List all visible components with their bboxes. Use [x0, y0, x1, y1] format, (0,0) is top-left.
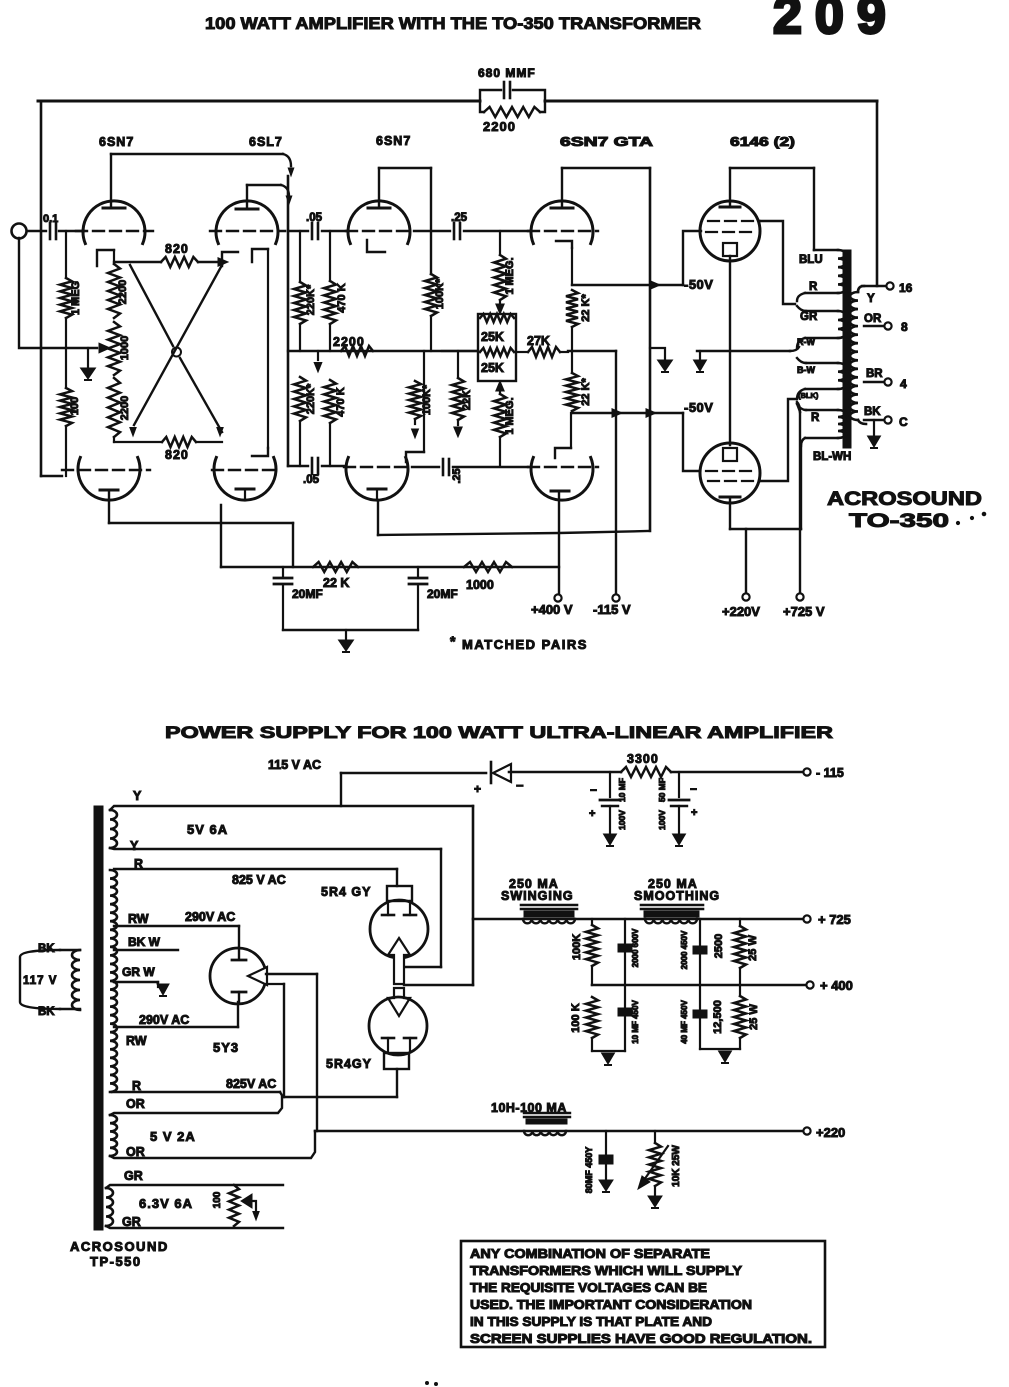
wire lower 820 to V2B	[196, 441, 222, 443]
label GRW	[122, 965, 155, 979]
svg-text:ACROSOUND: ACROSOUND	[827, 489, 982, 510]
secondary tap 8	[864, 320, 908, 334]
label BKW	[128, 935, 161, 949]
wire screen upper	[760, 221, 795, 304]
wire 22K* junction	[568, 327, 616, 351]
svg-text:THE REQUISITE VOLTAGES CAN: THE REQUISITE VOLTAGES CAN BE	[470, 1280, 707, 1295]
svg-text:6SL7: 6SL7	[249, 135, 283, 149]
wire 5Y3 out lower	[266, 984, 284, 1097]
resistor 12500 25W	[712, 985, 760, 1049]
row y534 to bias	[378, 531, 648, 535]
tube V4A grid dashed line	[528, 230, 598, 232]
label 250MA smoothing	[634, 877, 720, 903]
rail y567	[221, 566, 559, 568]
wire V4A cathode down	[571, 248, 573, 285]
svg-text:117 V: 117 V	[23, 975, 57, 987]
svg-text:115 V AC: 115 V AC	[268, 758, 321, 772]
svg-text:+220: +220	[816, 1125, 845, 1140]
svg-text:R: R	[809, 281, 818, 293]
wire 5V6A bottom	[110, 848, 441, 849]
svg-text:5V 6A: 5V 6A	[187, 822, 228, 837]
svg-text:6.3V 6A: 6.3V 6A	[139, 1196, 193, 1211]
svg-text:100K*: 100K*	[434, 278, 446, 309]
tube V1B 6SN7 lower envelope	[78, 457, 140, 500]
svg-text:C: C	[899, 415, 908, 429]
wire 1MEG to row	[65, 318, 67, 348]
svg-text:IN THIS SUPPLY IS THAT PL: IN THIS SUPPLY IS THAT PLATE AND	[470, 1314, 712, 1329]
label BLK smudge	[798, 391, 819, 400]
resistor 220K* upper	[294, 231, 317, 324]
pot 25K lower	[480, 348, 514, 375]
secondary tap 4	[864, 377, 907, 391]
svg-text:10 MF 450V: 10 MF 450V	[631, 1000, 640, 1044]
diode bias	[474, 762, 524, 796]
svg-text:B-W: B-W	[797, 365, 815, 375]
svg-text:100: 100	[69, 397, 81, 415]
wire 725 junction	[797, 402, 800, 412]
svg-text:0.1: 0.1	[43, 213, 58, 225]
svg-text:220K*: 220K*	[305, 284, 317, 315]
choke smoothing core	[641, 905, 703, 917]
tube V4A 6SN7GTA upper envelope	[531, 201, 593, 244]
svg-text:680 MMF: 680 MMF	[478, 66, 536, 80]
wire V3 to .25 cap	[414, 230, 450, 232]
wire input down	[19, 238, 97, 348]
arrow tap on row	[314, 351, 322, 372]
svg-text:20MF: 20MF	[292, 587, 323, 601]
resistor 1MEG upper	[494, 231, 516, 314]
label Y1	[133, 789, 142, 803]
wire V3 cathode vertical	[406, 351, 424, 462]
label 6146 (2)	[730, 135, 795, 149]
svg-text:ANY COMBINATION OF SEPARATE: ANY COMBINATION OF SEPARATE	[470, 1246, 711, 1261]
svg-text:100V: 100V	[657, 810, 667, 830]
svg-text:SCREEN SUPPLIES HAVE GOOD: SCREEN SUPPLIES HAVE GOOD REGULATION.	[470, 1331, 812, 1346]
63V winding bumps	[106, 1188, 113, 1226]
resistor 820 upper	[161, 242, 198, 267]
wire feedback top rail left	[38, 100, 480, 103]
wire 5V2A top	[110, 1097, 282, 1115]
tube V5A 6146 envelope	[700, 201, 760, 261]
cross-coupling wire B	[134, 265, 222, 425]
svg-text:*: *	[450, 633, 456, 649]
label 6SN7 stage1	[99, 135, 134, 149]
resistor 470K upper	[324, 231, 348, 324]
primary section 3	[797, 358, 846, 399]
label BK bottom	[38, 1006, 55, 1018]
wire box left to 22K	[442, 350, 478, 352]
tube V2A grid dashed line	[210, 230, 285, 232]
resistor 100K lower	[570, 997, 598, 1051]
svg-text:5R4 GY: 5R4 GY	[321, 885, 371, 899]
svg-text:BR: BR	[866, 368, 883, 380]
wire V2 cathode down	[267, 249, 269, 448]
tube V2A cathode bracket L	[222, 252, 238, 266]
svg-text:825V AC: 825V AC	[226, 1077, 276, 1091]
label 250MA swinging	[501, 877, 574, 903]
label R1	[134, 857, 143, 871]
row -50V lower	[572, 409, 683, 417]
tube 5Y3 top post	[232, 948, 246, 960]
label 117 V	[23, 975, 57, 987]
tube V5A grids dashed	[706, 221, 760, 232]
wire .25 to V4 grid	[464, 230, 530, 232]
5V2A winding bumps	[110, 1115, 117, 1156]
tube 5R4 lower envelope	[369, 997, 427, 1055]
svg-text:TP-550: TP-550	[90, 1254, 142, 1269]
wire y985 crossing	[404, 984, 473, 986]
resistor 1MEG lower	[494, 381, 516, 466]
arrowhead cross into V2B	[217, 428, 223, 437]
choke 10H core	[524, 1113, 570, 1124]
note text	[470, 1246, 812, 1346]
label -50V upper	[684, 277, 713, 292]
label -50V lower	[684, 400, 713, 415]
tube V1A cathode bracket	[97, 250, 114, 266]
capacitor 20MF right	[409, 567, 458, 630]
label 10H-100MA	[491, 1101, 567, 1115]
svg-text:R-W: R-W	[797, 337, 815, 347]
svg-text:Y: Y	[130, 839, 139, 853]
cross loop at crossing	[172, 348, 181, 357]
label BLU	[799, 254, 823, 266]
arrow 100K* lower gnd	[412, 419, 419, 438]
wire V4B bracket	[555, 413, 571, 458]
svg-text:RW: RW	[128, 912, 149, 926]
wire 220K-470K mid join	[300, 324, 330, 351]
wire 100K* column	[430, 168, 432, 274]
svg-text:+725 V: +725 V	[783, 604, 825, 619]
label 5Y3	[213, 1040, 239, 1055]
wire .05 to V3 grid	[322, 230, 346, 232]
svg-text:100K*: 100K*	[421, 384, 433, 415]
secondary winding	[850, 286, 866, 424]
ground arrow secondary	[868, 420, 881, 448]
wire +220 row	[315, 1130, 803, 1133]
svg-text:-115 V: -115 V	[593, 602, 631, 617]
capacitor .25 upper	[451, 212, 468, 239]
svg-text:SMOOTHING: SMOOTHING	[634, 889, 720, 903]
choke smoothing bumps	[645, 919, 697, 923]
tube V2A cathode bracket R	[252, 249, 268, 262]
wire 115VAC riser	[340, 773, 342, 806]
svg-text:825 V AC: 825 V AC	[232, 873, 286, 887]
svg-text:470 K: 470 K	[335, 387, 347, 416]
svg-text:5Y3: 5Y3	[213, 1040, 239, 1055]
svg-text:1 MEG.: 1 MEG.	[504, 257, 516, 294]
tube V1B grid dashed	[62, 469, 150, 471]
svg-text:GR: GR	[122, 1215, 141, 1229]
wire coupling to .05 cap	[288, 230, 308, 232]
label RW1	[128, 912, 149, 926]
wire stage3 plate rail	[379, 167, 431, 169]
svg-text:290V AC: 290V AC	[185, 910, 235, 924]
tube 5R4 upper plate box	[387, 869, 412, 901]
resistor 100K* lower	[409, 381, 433, 419]
svg-text:16: 16	[899, 281, 913, 295]
svg-text:100 K: 100 K	[570, 1003, 582, 1032]
wire B+ row	[473, 918, 803, 921]
wire V2B cathode down	[220, 505, 222, 567]
svg-text:-50V: -50V	[684, 400, 713, 415]
svg-text:6SN7: 6SN7	[99, 135, 134, 149]
wire 115VAC line	[268, 758, 486, 773]
capacitor 0.1 input	[43, 213, 58, 239]
terminal -115V	[593, 594, 631, 617]
wire 290VAC lower	[114, 1002, 238, 1027]
resistor 3300 bias	[621, 752, 671, 777]
resistor 1000 rail	[464, 562, 512, 592]
wire GRW arrow	[114, 982, 169, 996]
resistor 22K rail	[313, 562, 358, 590]
svg-text:40 MF 450V: 40 MF 450V	[680, 1000, 689, 1044]
svg-text:.25: .25	[451, 468, 463, 483]
wire V3B cathode to row534	[377, 500, 379, 535]
terminal +725 ps	[803, 912, 851, 927]
wire rail into transformer primary	[813, 168, 815, 250]
input jack	[12, 224, 27, 239]
page number 209	[773, 0, 899, 45]
wire stage4 plate rail	[562, 167, 650, 169]
resistor 2200 row	[333, 335, 373, 356]
power supply title	[165, 723, 833, 742]
svg-text:10K 25W: 10K 25W	[671, 1145, 682, 1187]
primary 117V bracket	[20, 950, 80, 1009]
svg-text:+: +	[691, 807, 697, 819]
row y351 stage2-3	[288, 350, 478, 352]
wire stage2 plate rail	[247, 185, 292, 204]
label BK top	[38, 943, 55, 955]
wire stage1 plate rail	[111, 154, 291, 166]
svg-text:−: −	[590, 783, 597, 797]
wire 5Y3 out upper	[266, 974, 317, 1131]
label B-WH smudge	[797, 365, 815, 375]
label R2	[132, 1079, 141, 1093]
tube V5A plate	[720, 168, 740, 207]
choke swinging bumps	[523, 919, 575, 923]
secondary top tap to 16	[862, 285, 886, 287]
svg-text:80MF 450Y: 80MF 450Y	[584, 1147, 594, 1194]
rectifier arrow up	[388, 938, 410, 984]
label GR1	[124, 1169, 143, 1183]
label 63V 6A	[139, 1196, 193, 1211]
ground arrow main	[339, 630, 354, 652]
resistor 22K* lower	[566, 351, 592, 411]
resistor 220K* lower	[294, 377, 317, 466]
svg-text:8: 8	[901, 320, 908, 334]
label R primary1	[809, 281, 818, 293]
wire 6146 cathode chain	[729, 256, 731, 445]
svg-text:22 K: 22 K	[323, 576, 349, 590]
wire cathode row 523	[109, 523, 293, 567]
terminal +400 ps	[806, 978, 853, 993]
tube V4B cathode	[551, 491, 569, 594]
resistor 2500 25W	[713, 919, 759, 985]
wire stage5 top rail	[730, 167, 814, 169]
label ACROSOUND	[827, 489, 982, 510]
svg-text:2200: 2200	[119, 396, 131, 420]
wire V5B plate to primary bottom	[730, 445, 801, 529]
wire left to V1B grid	[41, 475, 62, 477]
resistor 27K	[516, 334, 568, 357]
svg-text:Y: Y	[867, 293, 875, 305]
resistor 10K 25W	[648, 1131, 682, 1208]
svg-text:BLU: BLU	[799, 254, 823, 266]
label Y2	[130, 839, 139, 853]
hum pot 100	[212, 1185, 239, 1226]
title text	[205, 14, 701, 33]
secondary bottom tap C	[864, 415, 908, 429]
svg-text:12,500: 12,500	[712, 1000, 724, 1034]
tube 5Y3 bottom post	[232, 992, 246, 1002]
capacitor .25 lower	[443, 459, 463, 484]
wire right long vertical x650	[649, 168, 652, 531]
svg-text:20MF: 20MF	[427, 587, 458, 601]
wire -50V to V5B grid	[683, 413, 700, 471]
tube V4A plate	[551, 168, 573, 208]
svg-text:GR W: GR W	[122, 965, 155, 979]
primary 117V bumps	[72, 950, 80, 1010]
ground row	[283, 629, 418, 631]
tube V3A grid dashed line	[346, 230, 414, 232]
svg-text:470 K: 470 K	[336, 283, 348, 312]
tube V5B plate	[720, 497, 740, 529]
wire 825VAC tap	[114, 869, 397, 887]
HV winding bumps	[110, 870, 117, 1092]
svg-text:- 115: - 115	[816, 766, 844, 780]
arrowhead into 1000 pot	[99, 343, 110, 353]
wire coupling vertical x288	[287, 176, 290, 466]
ground arrow mid x660	[650, 348, 673, 372]
wire 5V2A bottom	[110, 1131, 315, 1158]
svg-text:22K: 22K	[461, 390, 473, 410]
svg-text:BK: BK	[864, 406, 881, 418]
tube V1A plate	[103, 154, 125, 208]
resistor 2200 lower stage1	[108, 378, 131, 437]
svg-text:1000: 1000	[119, 336, 131, 360]
svg-text:22 K*: 22 K*	[580, 378, 592, 406]
tube V3B cathode	[368, 489, 386, 500]
svg-text:BL-WH: BL-WH	[813, 451, 851, 463]
svg-text:BK W: BK W	[128, 935, 161, 949]
svg-text:+220V: +220V	[722, 604, 760, 619]
wire BKW stub	[114, 949, 178, 951]
wire 2200 bottom to lower 820 row	[114, 437, 162, 442]
wire feedback from 16 tap	[876, 101, 879, 286]
svg-text:R: R	[811, 412, 820, 424]
pot arrow 10K	[638, 1146, 668, 1189]
tube V4B 6SN7GTA lower envelope	[531, 457, 593, 500]
svg-text:820: 820	[165, 242, 189, 256]
rectifier arrow down	[388, 988, 410, 1016]
tube V5B grids dashed	[706, 471, 760, 481]
svg-text:+ 725: + 725	[818, 912, 851, 927]
terminal -115	[803, 766, 843, 780]
tube 5R4 lower posts	[382, 1038, 416, 1052]
svg-text:RW: RW	[126, 1034, 147, 1048]
svg-text:100 WATT AMPLIFIER WITH THE TO: 100 WATT AMPLIFIER WITH THE TO-350 TRANS…	[205, 14, 701, 33]
wire 290VAC upper	[114, 910, 239, 948]
resistor 100K upper	[571, 919, 598, 985]
label OR2	[126, 1145, 145, 1159]
ground arrow near pot	[81, 348, 96, 380]
wire feedback top rail right	[545, 100, 877, 103]
filter cap column 2	[680, 919, 707, 1049]
row -50V upper	[572, 281, 683, 289]
resistor 100K* upper	[425, 274, 446, 316]
wire left feedback vertical	[40, 101, 43, 476]
wire B+ vert x473	[472, 806, 475, 985]
wire cathode node	[113, 250, 115, 264]
label matched pairs	[450, 633, 588, 652]
terminal 16	[886, 281, 912, 295]
svg-text:6146 (2): 6146 (2)	[730, 135, 795, 149]
svg-text:820: 820	[165, 448, 189, 462]
capacitor 20MF left	[274, 567, 323, 630]
label 5V 2A	[150, 1129, 196, 1144]
resistor 22K stage3	[452, 351, 473, 437]
tube V3B 6SN7 lower envelope	[346, 457, 408, 500]
wire .05 lower left	[288, 465, 344, 467]
wire input to cap	[27, 230, 46, 232]
svg-text:4: 4	[900, 377, 907, 391]
svg-text:−: −	[690, 782, 697, 796]
primary section 1	[797, 250, 846, 301]
wire cap to tube1 grid	[59, 230, 84, 232]
wire bracket to 820	[114, 261, 161, 263]
label 6SN7 stage3	[376, 134, 411, 148]
svg-text:290V AC: 290V AC	[139, 1013, 189, 1027]
wire .25 lower wires	[412, 466, 528, 468]
svg-text:220K*: 220K*	[305, 383, 317, 414]
hum pot arrow	[241, 1194, 259, 1220]
svg-text:.25: .25	[451, 212, 468, 224]
label ACROSOUND TP-550	[70, 1239, 169, 1269]
tube V3A 6SN7 upper envelope	[348, 201, 410, 244]
tube 5Y3 envelope	[210, 948, 266, 1004]
label BR secondary	[866, 368, 883, 380]
tube 5R4 upper envelope	[370, 900, 428, 958]
svg-text:27K: 27K	[527, 334, 550, 348]
svg-text:BK: BK	[38, 1006, 55, 1018]
label GR2	[122, 1215, 141, 1229]
svg-text:100K: 100K	[571, 934, 583, 960]
bottom mark	[426, 1382, 438, 1386]
svg-text:25 W: 25 W	[748, 1004, 760, 1030]
tube V2A 6SL7 upper envelope	[216, 201, 278, 244]
svg-text:ACROSOUND: ACROSOUND	[70, 1239, 169, 1254]
pot 25K upper	[480, 314, 514, 344]
tube V3A cathode bracket	[367, 240, 385, 252]
wire 63V bottom	[106, 1226, 283, 1228]
tube V1A 6SN7 upper envelope	[83, 201, 145, 244]
tube V2B 6SL7 lower envelope	[214, 457, 276, 500]
svg-text:TO-350: TO-350	[849, 511, 949, 532]
svg-text:+: +	[474, 782, 481, 796]
resistor 100 cathode	[60, 348, 81, 476]
primary section 4	[797, 404, 846, 446]
svg-text:2200: 2200	[483, 119, 516, 134]
label OR secondary	[864, 313, 882, 325]
cross-coupling wire A	[130, 265, 222, 432]
svg-text:50 MF: 50 MF	[657, 778, 667, 802]
resistor 470K lower	[324, 380, 347, 466]
svg-text:6SN7: 6SN7	[376, 134, 411, 148]
wire center tap row	[697, 347, 799, 351]
resistor 820 lower	[162, 437, 196, 462]
label R-WH smudge	[797, 337, 815, 347]
tube V3B grid dashed	[344, 466, 412, 468]
